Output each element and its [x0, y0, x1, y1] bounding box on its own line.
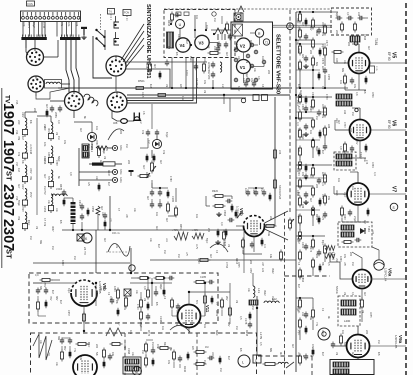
- svg-text:220: 220: [309, 50, 312, 55]
- coil L13: [253, 286, 255, 297]
- svg-text:ANTENNA VHF: ANTENNA VHF: [207, 62, 210, 80]
- capacitors C104 group: [51, 106, 53, 109]
- cap box right of V5: [370, 66, 375, 73]
- svg-text:1M: 1M: [177, 254, 180, 257]
- svg-text:R992: R992: [271, 268, 273, 274]
- svg-text:2307: 2307: [0, 219, 16, 251]
- tube V6: [350, 120, 371, 141]
- stage2 wires: [296, 96, 332, 98]
- svg-text:V3: V3: [199, 41, 205, 46]
- trafo T184 dashed box: [338, 222, 372, 247]
- wire y263 top of frame section: [33, 262, 130, 264]
- L507 coil: [52, 194, 67, 196]
- svg-text:0,1: 0,1: [351, 292, 354, 296]
- scope trace C: [170, 325, 190, 332]
- svg-text:0,2: 0,2: [147, 140, 150, 144]
- svg-text:R547: R547: [107, 170, 110, 177]
- svg-text:1M: 1M: [260, 188, 263, 191]
- svg-text:7V: 7V: [175, 310, 177, 313]
- wire mid cluster: [151, 104, 153, 129]
- svg-text:C252: C252: [252, 188, 255, 194]
- svg-text:4n7: 4n7: [142, 165, 146, 170]
- stage3 caps: [305, 174, 307, 177]
- svg-text:10n: 10n: [123, 306, 126, 311]
- black caps row left of V8b: [217, 229, 219, 237]
- trafo T103 dashed box: [334, 152, 356, 170]
- svg-text:4n7: 4n7: [209, 254, 212, 259]
- dashed separator vertical mid: [289, 10, 291, 212]
- bottom coil box L081: [123, 357, 141, 374]
- wire D1: [91, 122, 93, 132]
- svg-text:1907: 1907: [0, 140, 16, 172]
- circle T2: [263, 39, 269, 45]
- trafo T102 hatched: [336, 94, 352, 99]
- wires right cluster: [225, 195, 232, 197]
- svg-text:0,6: 0,6: [355, 92, 358, 96]
- svg-text:V15: V15: [15, 100, 18, 105]
- svg-text:V1: V1: [240, 65, 246, 70]
- tube V3: [195, 35, 209, 49]
- svg-text:188V: 188V: [297, 26, 299, 32]
- circle K: [82, 233, 92, 243]
- svg-text:10n: 10n: [195, 15, 198, 20]
- svg-text:C385: C385: [301, 104, 304, 111]
- svg-text:C148: C148: [29, 148, 32, 155]
- wire UHF to VHF: [211, 29, 231, 31]
- svg-text:4n7: 4n7: [309, 198, 312, 203]
- scope trace curve A: [108, 129, 124, 140]
- cluster C61 caps: [247, 190, 249, 193]
- circle S: [390, 203, 398, 211]
- svg-text:4n7: 4n7: [367, 46, 370, 51]
- svg-text:C236: C236: [335, 58, 337, 64]
- coil L400 box: [338, 296, 360, 326]
- svg-text:117V: 117V: [195, 244, 197, 250]
- tube V2: [237, 38, 251, 52]
- scope trace B: [210, 244, 228, 252]
- resistor R505: [138, 175, 141, 177]
- V8b grid wire: [236, 225, 244, 227]
- wire S2 loop: [36, 88, 70, 99]
- box Z: [253, 355, 261, 363]
- svg-text:220: 220: [335, 30, 338, 35]
- svg-text:4n7: 4n7: [165, 218, 168, 223]
- wire V6 grid: [335, 129, 350, 131]
- VHF pins: [234, 48, 238, 52]
- wire contacts up: [115, 16, 117, 22]
- wire socket V-A right: [126, 61, 207, 63]
- wire V6 right to edge: [371, 129, 407, 131]
- svg-text:C857: C857: [321, 104, 323, 110]
- svg-text:4n7: 4n7: [299, 90, 302, 95]
- socket S1: [27, 49, 44, 66]
- svg-text:R226: R226: [335, 190, 337, 196]
- svg-text:140V: 140V: [21, 112, 23, 118]
- trafo T1 box: [233, 24, 243, 36]
- svg-text:220: 220: [33, 108, 36, 113]
- svg-text:4n7: 4n7: [363, 220, 366, 225]
- svg-text:R142: R142: [183, 366, 186, 373]
- svg-text:172V: 172V: [325, 94, 328, 100]
- svg-text:M: M: [135, 370, 138, 374]
- stage1 wires: [296, 11, 332, 13]
- tube V5: [349, 53, 370, 74]
- V5 cathode parts: [344, 74, 346, 77]
- svg-text:58pF: 58pF: [205, 238, 207, 244]
- svg-text:R700: R700: [321, 22, 323, 28]
- B mid parts: [145, 342, 147, 345]
- dashed partition in box B x197: [196, 333, 198, 375]
- bottom resistor diagonal: [263, 363, 266, 365]
- wire x96 down: [95, 230, 97, 273]
- svg-text:1M: 1M: [151, 342, 154, 345]
- svg-text:1M: 1M: [73, 256, 76, 259]
- circle junction: [129, 265, 135, 271]
- wire vertical x275: [274, 97, 276, 218]
- svg-text:466 c/s: 466 c/s: [112, 232, 121, 235]
- svg-text:49pF: 49pF: [87, 342, 89, 348]
- output box: [330, 360, 374, 375]
- svg-text:0,7: 0,7: [117, 322, 120, 326]
- svg-text:C101: C101: [297, 308, 299, 314]
- svg-text:1M: 1M: [51, 246, 54, 249]
- V9b right parts: [117, 288, 119, 291]
- UHF hatched coil: [167, 32, 174, 48]
- svg-text:R419: R419: [215, 310, 218, 317]
- svg-text:20V: 20V: [355, 140, 358, 145]
- wire from socket V-B y95: [127, 94, 290, 96]
- svg-text:30V: 30V: [47, 176, 49, 181]
- svg-text:4k7: 4k7: [153, 64, 156, 69]
- two term boxes y97: [253, 95, 259, 101]
- svg-text:257V: 257V: [29, 192, 31, 198]
- switch mech dashed link: [100, 14, 102, 30]
- svg-text:1M: 1M: [43, 186, 46, 189]
- svg-text:10n: 10n: [261, 56, 264, 61]
- svg-text:L14: L14: [221, 84, 224, 89]
- svg-text:C493: C493: [363, 34, 366, 41]
- svg-text:137V: 137V: [244, 188, 247, 194]
- tube V8a: [353, 270, 372, 289]
- svg-text:10n: 10n: [67, 22, 71, 27]
- svg-text:35pF: 35pF: [139, 322, 142, 328]
- svg-text:L58: L58: [213, 46, 217, 51]
- svg-text:163V: 163V: [343, 214, 346, 220]
- svg-text:U: U: [179, 23, 182, 27]
- terminal circle C: [112, 177, 117, 182]
- svg-text:L93: L93: [357, 12, 360, 17]
- svg-text:227V: 227V: [27, 22, 31, 28]
- svg-text:1M: 1M: [251, 306, 254, 309]
- svg-text:C827: C827: [87, 152, 89, 158]
- svg-text:1M: 1M: [213, 18, 216, 21]
- svg-text:V4: V4: [180, 43, 186, 48]
- V9b left wires: [33, 282, 42, 284]
- UHF wires: [179, 29, 181, 39]
- svg-text:10n: 10n: [339, 80, 342, 85]
- svg-text:160V: 160V: [211, 352, 213, 358]
- coil L-S2: [46, 82, 60, 84]
- oval lamp: [121, 119, 128, 124]
- svg-text:48pF: 48pF: [159, 284, 162, 290]
- svg-text:47k: 47k: [60, 22, 64, 27]
- svg-text:78k: 78k: [17, 136, 21, 141]
- svg-text:0,9: 0,9: [57, 120, 60, 124]
- capacitor C301: [147, 130, 149, 133]
- svg-text:63pF: 63pF: [237, 86, 239, 92]
- svg-text:C118: C118: [141, 92, 143, 98]
- cluster above V8b caps: [151, 190, 153, 193]
- svg-text:C138: C138: [159, 316, 162, 323]
- svg-text:220: 220: [315, 254, 318, 259]
- ww resistor: [96, 206, 100, 215]
- wire mid horizontal y230: [62, 229, 244, 231]
- V11 parts: [171, 298, 173, 301]
- terminal strip TS1: [21, 11, 81, 22]
- B right parts: [194, 351, 197, 353]
- svg-text:1M: 1M: [351, 262, 354, 265]
- svg-text:10n: 10n: [43, 142, 47, 147]
- svg-text:4n7: 4n7: [301, 22, 304, 27]
- svg-text:1M: 1M: [163, 250, 166, 253]
- svg-text:135V: 135V: [113, 286, 116, 292]
- svg-text:0,9: 0,9: [220, 222, 223, 226]
- svg-text:V7: V7: [391, 186, 397, 192]
- svg-text:59pF: 59pF: [245, 72, 248, 78]
- VHF tuner box: [231, 22, 273, 89]
- wire V9a top: [357, 326, 359, 335]
- svg-text:R615: R615: [47, 128, 49, 134]
- svg-text:V16: V16: [15, 130, 18, 135]
- cluster above V8b right: [213, 195, 216, 197]
- tube V7: [347, 183, 369, 205]
- svg-text:0,4: 0,4: [296, 122, 299, 126]
- dashed separator vertical mid lower: [284, 212, 286, 375]
- svg-text:10n: 10n: [203, 324, 206, 329]
- svg-text:1M: 1M: [87, 144, 90, 147]
- stage1 stub wires: [296, 43, 326, 45]
- svg-text:4n7: 4n7: [159, 160, 162, 165]
- svg-text:FON: FON: [124, 12, 129, 15]
- svg-text:32pF: 32pF: [335, 12, 338, 18]
- loop coil at socket V-C: [84, 94, 98, 106]
- svg-text:220: 220: [315, 184, 318, 189]
- svg-text:67pF: 67pF: [165, 132, 168, 138]
- svg-text:C655: C655: [369, 312, 371, 318]
- svg-text:V17: V17: [15, 162, 18, 167]
- tube V1: [237, 60, 251, 74]
- svg-text:C835: C835: [237, 262, 239, 268]
- svg-text:L54: L54: [278, 150, 282, 155]
- svg-text:EF 80: EF 80: [387, 120, 391, 129]
- V6 cathode parts: [344, 142, 346, 145]
- svg-text:0,8: 0,8: [109, 296, 112, 300]
- svg-text:11pF: 11pF: [297, 214, 299, 220]
- wire chain link: [36, 118, 38, 215]
- svg-text:220: 220: [207, 228, 210, 233]
- circle L: [238, 355, 250, 367]
- T184 diode: [360, 228, 365, 234]
- B caps row: [61, 338, 63, 341]
- dashed fragment right of box A: [285, 275, 331, 277]
- svg-text:EF 80: EF 80: [387, 52, 391, 61]
- svg-text:119V: 119V: [43, 156, 46, 162]
- svg-text:L10N: L10N: [331, 252, 335, 260]
- wire y260 bottom mid: [150, 259, 296, 261]
- svg-text:220: 220: [95, 344, 98, 349]
- antenna symbol 2: [222, 28, 228, 34]
- svg-text:R776: R776: [147, 330, 150, 337]
- tube V11: [178, 305, 201, 328]
- svg-text:10n: 10n: [181, 96, 184, 101]
- svg-text:0,5: 0,5: [259, 342, 262, 346]
- svg-text:220: 220: [349, 252, 352, 257]
- wire V7 right to edge: [369, 193, 406, 195]
- wire V7 top: [357, 172, 359, 183]
- svg-text:10n: 10n: [337, 178, 340, 183]
- resistor R108: [98, 146, 100, 149]
- svg-text:0,4: 0,4: [321, 182, 324, 186]
- svg-text:178V: 178V: [169, 176, 172, 182]
- svg-text:4n7: 4n7: [291, 344, 294, 349]
- svg-text:181V: 181V: [145, 172, 148, 178]
- svg-text:C255: C255: [327, 74, 330, 81]
- svg-text:141V: 141V: [189, 56, 192, 62]
- mains plug P1: [134, 117, 140, 120]
- svg-text:76k: 76k: [17, 216, 21, 221]
- wire cluster to frame: [151, 183, 153, 188]
- wire socket to lamp: [112, 110, 121, 121]
- antenna symbol 1: [215, 28, 221, 34]
- svg-text:208V: 208V: [54, 112, 58, 118]
- svg-text:R50B: R50B: [145, 62, 148, 69]
- zigzag resistor R66: [96, 146, 108, 150]
- wire from socket V-B y100.5 turning up: [127, 58, 193, 101]
- svg-text:10n: 10n: [309, 130, 312, 135]
- svg-text:L92: L92: [343, 110, 346, 115]
- terminal circle B: [112, 169, 117, 174]
- svg-text:305E: 305E: [119, 145, 122, 151]
- svg-text:0,4: 0,4: [263, 244, 266, 248]
- svg-text:1M: 1M: [57, 136, 60, 139]
- svg-text:1M: 1M: [351, 112, 354, 115]
- svg-text:220: 220: [347, 42, 350, 47]
- svg-text:1M: 1M: [235, 326, 238, 329]
- svg-text:220: 220: [365, 330, 368, 335]
- B wires: [61, 346, 63, 350]
- svg-text:C528: C528: [21, 206, 23, 212]
- resistor R504 with pot: [151, 161, 153, 164]
- svg-text:C748: C748: [55, 160, 57, 166]
- svg-text:54V: 54V: [343, 342, 346, 347]
- svg-text:0,5: 0,5: [239, 316, 242, 320]
- svg-text:1M: 1M: [227, 244, 229, 247]
- svg-text:SINCRONIZ: SINCRONIZ: [278, 185, 282, 200]
- svg-text:T181: T181: [374, 38, 378, 45]
- svg-text:L17N: L17N: [259, 332, 263, 339]
- svg-text:188V: 188V: [249, 268, 251, 274]
- svg-text:4n7: 4n7: [155, 226, 158, 231]
- svg-text:1M: 1M: [377, 340, 380, 343]
- wire V9a right to edge: [370, 345, 407, 347]
- svg-text:127V: 127V: [185, 70, 188, 76]
- wire socket V-A down: [115, 76, 117, 91]
- VHF inner wires: [250, 32, 255, 34]
- circle M: [133, 367, 142, 375]
- svg-text:ST: ST: [5, 171, 14, 181]
- stage1 resistor chain: [299, 12, 301, 15]
- svg-text:R358: R358: [245, 330, 248, 337]
- svg-text:C733: C733: [343, 122, 345, 128]
- svg-text:C377: C377: [325, 40, 328, 47]
- wires terminals: [79, 171, 112, 173]
- junction circle H on coax: [287, 23, 294, 30]
- C17B cap: [249, 312, 251, 320]
- waveform near sync: [174, 232, 188, 240]
- mid frame parts row: [138, 277, 141, 279]
- svg-text:T.V: T.V: [109, 11, 113, 14]
- svg-text:C313: C313: [78, 200, 81, 207]
- svg-text:R629: R629: [297, 48, 299, 54]
- svg-text:C745: C745: [42, 22, 46, 29]
- svg-text:4n7: 4n7: [351, 352, 354, 357]
- page fold line left edge: [1, 88, 3, 268]
- wire chain tops: [24, 112, 26, 118]
- svg-text:220: 220: [349, 128, 352, 133]
- svg-text:R344: R344: [249, 40, 252, 47]
- dashed box bottom right C: [258, 355, 312, 357]
- wire V5 right to edge: [370, 62, 407, 64]
- svg-text:C.05: C.05: [375, 66, 377, 71]
- svg-text:1M: 1M: [35, 226, 37, 229]
- wire stubs y97: [223, 95, 225, 104]
- svg-text:C556: C556: [91, 206, 94, 213]
- svg-text:56pF: 56pF: [32, 22, 36, 28]
- svg-text:1907: 1907: [0, 103, 16, 135]
- stage5 parts: [299, 298, 301, 301]
- svg-text:T103: T103: [359, 152, 363, 159]
- T184 coils: [341, 225, 354, 230]
- antenna twin lead: [238, 6, 244, 12]
- svg-text:269V: 269V: [309, 106, 312, 112]
- svg-text:1M: 1M: [17, 168, 21, 172]
- stage2 caps: [305, 106, 307, 109]
- VHF bottom caps: [245, 81, 247, 84]
- svg-text:76V: 76V: [49, 296, 52, 301]
- svg-text:L41: L41: [301, 312, 304, 317]
- wire switch loop: [93, 36, 112, 78]
- svg-text:10n: 10n: [341, 330, 344, 335]
- T184 parts: [355, 239, 358, 241]
- svg-text:68pF: 68pF: [215, 330, 218, 336]
- svg-text:4n7: 4n7: [146, 196, 149, 201]
- svg-text:176V: 176V: [136, 304, 139, 310]
- svg-text:220: 220: [17, 120, 21, 125]
- junction dots bottom: [95, 282, 97, 284]
- svg-text:1M: 1M: [335, 352, 337, 355]
- svg-text:26V: 26V: [225, 296, 228, 301]
- svg-text:1M: 1M: [343, 292, 345, 295]
- tube V10 bottom: [73, 355, 97, 375]
- bus bar left: [21, 37, 46, 40]
- svg-text:220: 220: [127, 160, 130, 165]
- diode D2 in circle: [152, 139, 161, 148]
- antenna VHF parts: [212, 62, 214, 65]
- svg-text:L69: L69: [22, 22, 26, 27]
- svg-text:L400: L400: [344, 319, 351, 323]
- CRT trace with axis: [106, 251, 128, 253]
- switch wiper 1: [97, 30, 105, 37]
